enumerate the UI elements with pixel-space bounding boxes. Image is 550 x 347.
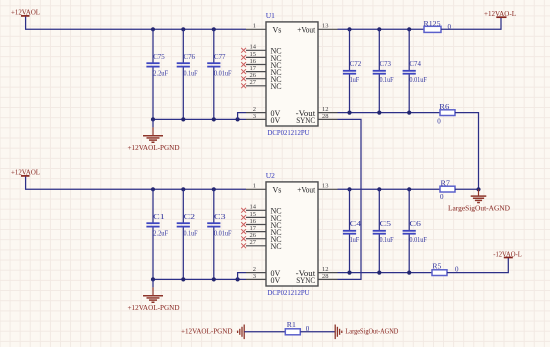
svg-text:C5: C5 [380,220,392,228]
U2 pin 13 (+Vout) [297,183,337,195]
svg-text:14: 14 [250,204,257,211]
resistor R125 [424,20,442,32]
svg-text:C77: C77 [214,53,226,61]
svg-text:R7: R7 [441,180,451,188]
resistor R1 [285,321,300,335]
svg-text:13: 13 [322,183,329,190]
svg-text:U2: U2 [266,171,275,180]
svg-text:27: 27 [250,79,257,86]
svg-text:0: 0 [448,23,452,31]
U1 pin 1 (Vs) [246,23,281,35]
no-connect X on U2 pin 26 [241,236,246,241]
no-connect X on U2 pin 27 [241,243,246,248]
svg-text:14: 14 [250,44,257,51]
svg-text:0.1uF: 0.1uF [184,70,198,78]
wire R1 to AGND port [300,331,335,333]
junction dots on -Vout wire [347,111,411,115]
U1 pin 16 (NC) [241,58,281,70]
wire ground rail to U1 pin 3 [153,118,246,120]
wire rail to U1 pin 2 [238,113,246,120]
svg-text:+12VAOL-PGND: +12VAOL-PGND [128,143,181,152]
ground +12VAOL-PGND (section U1) [128,119,181,152]
capacitor C74 [403,29,427,112]
wire R5 to -12VAO-L [447,258,508,273]
svg-text:27: 27 [250,239,257,246]
svg-text:C76: C76 [184,53,196,61]
svg-text:C74: C74 [409,60,421,68]
svg-text:28: 28 [322,273,329,280]
svg-text:0.01uF: 0.01uF [409,236,427,244]
U1 pin 2 (0V) [246,106,281,118]
svg-text:15: 15 [250,211,257,218]
svg-text:+Vout: +Vout [297,186,316,195]
no-connect X on U2 pin 16 [241,222,246,227]
op-amp / converter U2 DCP021212PU body [266,171,318,297]
U2 pin 1 (Vs) [246,183,281,195]
capacitor C3 [207,189,231,279]
svg-text:1uF: 1uF [350,76,360,84]
wire U1 +Vout to R125 [338,28,425,30]
svg-text:0.1uF: 0.1uF [184,230,198,238]
svg-text:26: 26 [250,232,257,239]
svg-text:15: 15 [250,51,257,58]
svg-text:C4: C4 [350,220,362,228]
no-connect X on U1 pin 15 [241,55,246,60]
capacitor C2 [177,189,198,279]
svg-text:C3: C3 [214,213,226,221]
svg-text:3: 3 [253,113,256,120]
svg-text:SYNC: SYNC [296,276,315,285]
svg-text:C72: C72 [350,60,362,68]
svg-text:NC: NC [271,242,282,251]
svg-text:0.1uF: 0.1uF [380,76,394,84]
U1 pin 14 (NC) [241,44,281,56]
svg-text:0.01uF: 0.01uF [409,76,427,84]
capacitor C75 [146,29,168,119]
svg-text:C1: C1 [153,213,165,221]
port symbol +12VAOL-PGND (bottom) [238,325,245,340]
ground +12VAOL-PGND (section U2) [128,279,181,312]
resistor R6 [439,103,455,115]
U1 pin 28 (SYNC) [296,113,337,125]
power port +12VAOL (section U2) [11,168,40,177]
port symbol LargeSigOut-AGND (bottom) [335,325,342,340]
U2 pin 15 (NC) [241,211,281,223]
no-connect X on U2 pin 14 [241,208,246,213]
svg-text:1: 1 [253,183,256,190]
svg-text:+Vout: +Vout [297,26,316,35]
junction dots on U2 -Vout wire [347,271,411,275]
capacitor C72 [343,29,362,112]
svg-text:3: 3 [253,273,256,280]
svg-text:Vs: Vs [273,26,282,35]
U1 pin 3 (0V) [246,113,281,125]
U1 pin 12 (-Vout) [296,106,338,118]
wire rail to U2 pin 2 [238,273,246,280]
svg-text:LargeSigOut-AGND: LargeSigOut-AGND [345,327,398,336]
junction dots on +12VAOL wire [151,27,216,31]
wire U1 -Vout to R6 [338,112,441,114]
junction dots on U2 +Vout wire [347,187,411,191]
wire port to R1 [244,331,285,333]
capacitor C73 [373,29,394,112]
svg-text:2.2uF: 2.2uF [153,70,168,78]
svg-text:0.01uF: 0.01uF [214,230,232,238]
svg-text:13: 13 [322,23,329,30]
svg-text:0V: 0V [271,276,281,285]
capacitor C1 [146,189,168,279]
resistor R5 [432,263,447,276]
U2 pin 27 (NC) [241,239,281,251]
no-connect X on U2 pin 15 [241,215,246,220]
no-connect X on U1 pin 14 [241,48,246,53]
svg-text:0: 0 [440,193,444,201]
wire R6 down to AGND node [455,113,479,190]
U1 pin 17 (NC) [241,65,281,77]
svg-text:SYNC: SYNC [296,116,315,125]
junction node R6/R7/AGND [476,187,480,191]
svg-text:R6: R6 [439,103,450,111]
svg-text:0V: 0V [271,116,281,125]
no-connect X on U1 pin 17 [241,69,246,74]
no-connect X on U1 pin 27 [241,83,246,88]
svg-text:Vs: Vs [273,186,282,195]
svg-text:DCP021212PU: DCP021212PU [268,128,311,137]
svg-text:1: 1 [253,23,256,30]
junction dots on +Vout wire [347,27,411,31]
svg-text:LargeSigOut-AGND: LargeSigOut-AGND [448,204,511,213]
U2 pin 14 (NC) [241,204,281,216]
svg-text:R1: R1 [287,321,297,329]
wire +12VAOL to U2 pin 1 [26,177,246,190]
svg-text:NC: NC [271,82,282,91]
svg-text:DCP021212PU: DCP021212PU [268,288,311,297]
svg-text:R125: R125 [424,20,442,28]
power port +12VAOL (section U1) [11,8,40,17]
U1 pin 13 (+Vout) [297,23,337,35]
svg-text:17: 17 [250,225,257,232]
resistor R7 [440,180,455,193]
ground LargeSigOut-AGND [448,189,511,212]
no-connect X on U1 pin 16 [241,62,246,67]
svg-text:U1: U1 [266,11,275,20]
U2 pin 2 (0V) [246,266,281,278]
capacitor C6 [403,189,427,272]
wire +12VAOL to U1 pin 1 [26,17,246,30]
capacitor C77 [207,29,231,119]
junction dots on ground rail [151,277,240,281]
svg-text:1uF: 1uF [350,236,360,244]
svg-text:28: 28 [322,113,329,120]
U1 pin 15 (NC) [241,51,281,63]
wire R125 to +12VAO-L [441,17,501,29]
U2 pin 26 (NC) [241,232,281,244]
wire SYNC U1 pin 28 to U2 pin 28 [338,119,362,279]
svg-text:C2: C2 [184,213,196,221]
svg-text:+12VAOL-PGND: +12VAOL-PGND [128,303,181,312]
wire U2 -Vout to R5 [338,272,433,274]
wire ground rail to U2 pin 3 [153,278,246,280]
U2 pin 17 (NC) [241,225,281,237]
svg-text:17: 17 [250,65,257,72]
U1 pin 27 (NC) [241,79,281,91]
U2 pin 28 (SYNC) [296,273,337,285]
no-connect X on U1 pin 26 [241,76,246,81]
U2 pin 3 (0V) [246,273,281,285]
capacitor C76 [177,29,198,119]
op-amp / converter U1 DCP021212PU body [266,11,318,137]
wire U2 +Vout to R7 [338,188,441,190]
svg-text:0: 0 [437,117,441,125]
svg-text:0.1uF: 0.1uF [380,236,394,244]
power port -12VAO-L [493,249,522,258]
svg-text:16: 16 [250,218,257,225]
svg-text:2.2uF: 2.2uF [153,230,168,238]
svg-text:C75: C75 [153,53,165,61]
U2 pin 16 (NC) [241,218,281,230]
svg-text:0.01uF: 0.01uF [214,70,232,78]
junction dots on ground rail [151,117,240,121]
power port +12VAO-L [484,9,516,18]
svg-text:C73: C73 [380,60,392,68]
wire R7 to AGND node [455,188,479,190]
no-connect X on U2 pin 17 [241,229,246,234]
svg-text:R5: R5 [432,263,442,271]
capacitor C5 [373,189,394,272]
capacitor C4 [343,189,362,272]
svg-text:C6: C6 [409,220,421,228]
junction dots on +12VAOL wire [151,187,216,191]
svg-text:+12VAOL-PGND: +12VAOL-PGND [181,327,233,336]
svg-text:16: 16 [250,58,257,65]
U2 pin 12 (-Vout) [296,266,338,278]
U1 pin 26 (NC) [241,72,281,84]
svg-text:26: 26 [250,72,257,79]
